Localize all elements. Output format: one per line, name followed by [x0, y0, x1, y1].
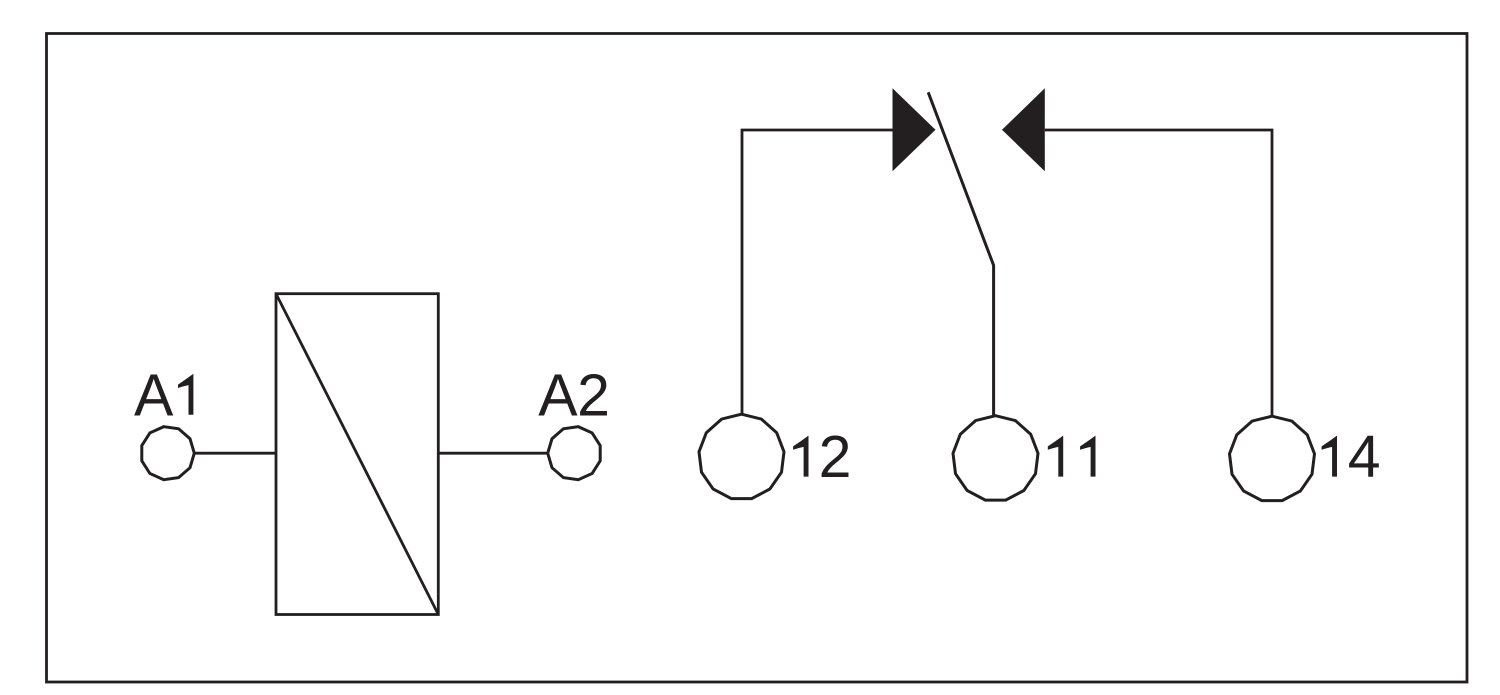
svg-text:2: 2 [819, 424, 852, 490]
wire coil to A2 [438, 452, 548, 455]
wire terminal 12 riser [742, 130, 893, 415]
pin label 11 [1048, 436, 1096, 477]
svg-text:A: A [134, 362, 174, 428]
terminal A2 [548, 427, 601, 480]
relay coil [276, 294, 438, 615]
contact arrow right (NO) [1002, 88, 1045, 171]
terminal A1 [142, 427, 195, 480]
pin label A1 [134, 362, 193, 428]
switch lever [928, 92, 993, 416]
pin label 14 [1322, 424, 1381, 490]
wire terminal 14 riser [1045, 130, 1272, 417]
pin label A2 [538, 362, 610, 428]
svg-text:2: 2 [577, 362, 610, 428]
terminal 12 [699, 414, 784, 498]
svg-text:A: A [538, 362, 578, 428]
wire A1 to coil [193, 452, 276, 455]
svg-text:4: 4 [1348, 424, 1381, 490]
terminal 11 [953, 416, 1038, 500]
contact arrow left (NC) [893, 88, 936, 171]
pin label 12 [793, 424, 851, 490]
terminal 14 [1230, 416, 1315, 500]
